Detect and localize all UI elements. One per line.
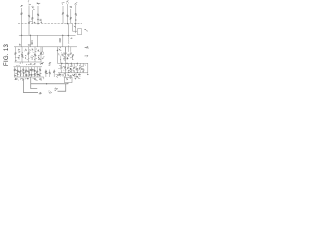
label midcol b xyxy=(57,74,59,76)
transistor Q35 xyxy=(70,69,72,71)
terminal label 422 xyxy=(49,90,52,92)
label row2 1 xyxy=(13,74,16,76)
wire rblock stub 6 xyxy=(82,63,84,66)
label 402 floating xyxy=(87,47,89,50)
label row1 rot 4 xyxy=(38,55,40,57)
wire row2 stub 8 xyxy=(33,67,35,77)
label coil xyxy=(70,37,73,39)
label rblock rot e xyxy=(75,65,78,67)
svg-text:408: 408 xyxy=(58,38,62,43)
wire V x72.5 xyxy=(72,24,74,32)
wire rblock stub低 5 xyxy=(79,70,81,73)
label rblock below xyxy=(70,75,72,77)
component circle rb2 xyxy=(62,74,64,76)
label below rail5 2 xyxy=(21,78,23,80)
label inside B2 xyxy=(65,77,68,79)
label row2 3 xyxy=(20,73,23,76)
wire row1R stub 1 xyxy=(65,47,67,52)
transistor Q40 xyxy=(61,67,63,69)
transistor Q37 xyxy=(76,69,78,71)
label top-right L6 xyxy=(67,2,70,5)
wire row2 stub 3 xyxy=(19,67,21,77)
transistor Q16b xyxy=(62,54,64,56)
junction cross v57 xyxy=(57,49,59,51)
label rblock rot c xyxy=(72,55,73,57)
wire row2 stub 4 xyxy=(22,67,24,77)
wire row1R stub 3 xyxy=(70,47,72,52)
transistor Q11 xyxy=(28,52,30,54)
wire midcol stub 1 xyxy=(45,70,47,78)
label v57 xyxy=(59,49,60,51)
label above rail3 b xyxy=(28,44,30,47)
wire to box B1 xyxy=(73,30,78,32)
label top-left L3 xyxy=(32,7,33,9)
wire rblock v87 xyxy=(87,63,89,73)
wire W branch down xyxy=(58,84,66,91)
label top-right L8 xyxy=(75,3,78,6)
wire W horizontal xyxy=(31,83,68,84)
transistor Q2 xyxy=(28,15,30,17)
wire rblock stub 2 xyxy=(70,63,72,66)
transistor Q17b xyxy=(72,54,74,56)
wire row1 V3 xyxy=(28,47,30,62)
label below rail5 4 xyxy=(34,77,35,79)
transistor Q20 xyxy=(20,71,22,73)
wire row2 stub 10 xyxy=(39,67,41,77)
transistor Q36 xyxy=(73,67,75,69)
wire rail4 xyxy=(14,66,43,68)
component circle CS1 xyxy=(41,52,44,55)
wire rblock stub 3 xyxy=(73,63,75,66)
transistor Q4 xyxy=(37,14,39,16)
wire top-left vertical V4 xyxy=(37,6,39,24)
transistor Q8 xyxy=(75,13,77,15)
label below rail5 5 xyxy=(40,78,41,80)
wire V x37.4 xyxy=(36,35,38,47)
wire v60 xyxy=(60,56,62,64)
junction top-right crosses xyxy=(67,23,69,25)
wire row1 V4 xyxy=(34,47,36,62)
box B2 xyxy=(65,77,73,82)
wire top-right vertical V7 xyxy=(70,9,72,24)
terminal label 424 xyxy=(40,92,42,94)
wire v57 xyxy=(56,47,58,64)
transistor Q21 xyxy=(22,69,24,71)
junction crosses node line xyxy=(21,34,23,36)
label right of rblock xyxy=(87,55,88,57)
wire V x62.8 xyxy=(62,35,64,47)
label texture rblock2 xyxy=(66,77,69,79)
transistor Q6 xyxy=(67,15,69,17)
wire rblock stub低 3 xyxy=(73,70,75,73)
wire V x21.6 xyxy=(21,24,23,47)
wire rblock stub 1 xyxy=(67,63,69,66)
transistor Q1 xyxy=(21,13,23,15)
wire rblock stub 5 xyxy=(79,63,81,66)
wire row2 stub 6 xyxy=(28,67,30,77)
inductor L1 xyxy=(67,37,70,44)
transistor Q19 xyxy=(17,70,19,72)
label row2 7 xyxy=(31,73,32,75)
label row1 rot 1 xyxy=(19,55,21,57)
label texture row1b xyxy=(35,50,38,52)
wire rblock stub低 4 xyxy=(76,71,78,73)
wire rail5 hook xyxy=(43,77,45,79)
transistor Q26 xyxy=(36,71,38,73)
wire rail row1bottom xyxy=(15,61,42,63)
wire rail3 xyxy=(14,46,77,48)
junction cross rc xyxy=(59,73,61,75)
wire terminal L2 inner xyxy=(31,77,37,89)
transistor Q27 xyxy=(39,69,41,71)
label mid gap xyxy=(49,63,51,66)
transistor Q22 xyxy=(25,70,27,72)
wire V x68.3 lower xyxy=(67,45,69,46)
capacitor C1 xyxy=(40,18,42,20)
transistor Q23 xyxy=(28,71,30,73)
wire top-right vertical V6 xyxy=(66,4,68,24)
wire rblock stub低 2 xyxy=(70,71,72,73)
terminal label 426 xyxy=(54,89,56,92)
wire top dashed rail xyxy=(18,23,82,25)
wire V x29 xyxy=(28,24,30,36)
transistor Q31 xyxy=(49,72,51,74)
label texture row1 xyxy=(38,55,40,57)
label texture rblock upper xyxy=(57,53,60,55)
label right of box B1 xyxy=(84,28,87,30)
transistor Q9 xyxy=(15,52,17,54)
label row1 top 1 xyxy=(19,48,21,51)
label row1 top 4 xyxy=(38,50,40,53)
component circle rb1 xyxy=(59,74,61,76)
label row1 top 3 xyxy=(31,50,34,53)
label row2 9 xyxy=(36,73,39,76)
label row1 top 2 xyxy=(25,49,26,51)
label row2 2 xyxy=(16,72,19,75)
wire V x30.3 xyxy=(29,35,31,47)
wire rblock rail c xyxy=(58,72,88,74)
transistor Q13 xyxy=(40,52,42,54)
label below rail5 3 xyxy=(27,78,28,80)
wire row1 V1 xyxy=(15,47,17,62)
wire rail5 xyxy=(14,76,44,78)
label top-right L5 xyxy=(61,1,64,4)
label top-left L1 xyxy=(21,5,23,7)
junction cross W xyxy=(46,83,48,85)
transistor Q18 xyxy=(14,69,16,71)
transistor Q15 xyxy=(65,53,67,55)
transistor Q25 xyxy=(34,70,36,72)
label below rail5 1 xyxy=(15,78,16,80)
wire row2 stub 9 xyxy=(36,67,38,77)
label under CS1 xyxy=(41,63,43,65)
transistor Q38 xyxy=(79,67,81,69)
wire midcol stub 2 xyxy=(49,70,51,78)
junction top-left crosses xyxy=(28,22,30,24)
wire row2 stub 7 xyxy=(31,67,33,77)
wire row2 stub 2 xyxy=(17,67,19,77)
label rblock rot d xyxy=(70,65,71,67)
wire node line xyxy=(19,34,76,36)
wire rblock stub低 1 xyxy=(67,70,69,73)
label right of B2 xyxy=(75,76,78,78)
wire top-right vertical V8 xyxy=(75,5,77,24)
label row2 6 xyxy=(29,73,31,76)
wire row1R stub 2 xyxy=(67,47,69,52)
wire V x75.6 xyxy=(75,24,77,33)
wire top-left vertical V2 xyxy=(28,6,30,24)
transistor Q3 xyxy=(32,17,34,19)
label above rail3 a xyxy=(18,43,21,45)
wire top-left vertical V3 xyxy=(31,10,33,24)
wire rblock stub7 xyxy=(61,63,63,66)
label row2 10 xyxy=(39,74,42,77)
label top-left L4 xyxy=(38,3,41,5)
wire rblock stub 4 xyxy=(76,63,78,66)
transistor Q10 xyxy=(21,54,23,56)
label row1 rot 3 xyxy=(32,55,33,57)
label above rail4 xyxy=(28,64,29,66)
label near V x75.6 xyxy=(74,26,77,28)
wire rblock stub低 6 xyxy=(82,71,84,73)
junction crosses rail b xyxy=(61,62,63,64)
box B1 xyxy=(77,29,81,35)
label row1R xyxy=(66,57,69,59)
label row2 5 xyxy=(26,75,27,77)
svg-text:404: 404 xyxy=(30,40,34,45)
label midcol xyxy=(47,72,49,74)
transistor Q5 xyxy=(62,12,64,14)
label row1 rot 2 xyxy=(24,55,27,57)
transistor Q30 xyxy=(45,71,47,73)
wire V x68.3 upper xyxy=(67,24,69,37)
wire rblock rail b xyxy=(57,62,88,64)
wire midcol stub 3 xyxy=(53,70,55,78)
label rblock rot a xyxy=(64,56,65,58)
transistor Q39 xyxy=(82,69,84,71)
label top-left L2 xyxy=(30,3,31,5)
label texture row2 xyxy=(15,69,17,72)
wire top-left vertical V1 xyxy=(21,8,23,24)
transistor Q16 xyxy=(67,54,69,56)
wire rblock v65 xyxy=(65,47,67,77)
transistor Q17 xyxy=(70,53,72,55)
label row2 8 xyxy=(35,74,36,77)
svg-text:FIG. 13: FIG. 13 xyxy=(4,44,10,66)
transistor Q32 xyxy=(53,71,55,73)
label row2 4 xyxy=(22,75,25,77)
wire row2 stub 1 xyxy=(14,67,16,77)
wire row1 V2 xyxy=(21,47,23,62)
junction cross rb xyxy=(87,73,89,75)
label texture rblock xyxy=(82,65,84,67)
transistor Q34 xyxy=(67,67,69,69)
wire row1 V5 xyxy=(40,47,42,62)
wire tick pair xyxy=(29,21,32,23)
label rblock rot b xyxy=(67,56,68,59)
wire row2 stub 5 xyxy=(25,67,27,77)
wire top-right vertical V5 xyxy=(62,6,64,24)
transistor Q7 xyxy=(70,17,72,19)
label rblock rot f xyxy=(81,65,82,67)
wire terminal L1 outer xyxy=(24,79,38,93)
label texture below rail5 xyxy=(17,79,20,81)
transistor Q12 xyxy=(34,54,36,56)
transistor Q24 xyxy=(31,69,33,71)
label top-right L7 xyxy=(69,6,72,8)
